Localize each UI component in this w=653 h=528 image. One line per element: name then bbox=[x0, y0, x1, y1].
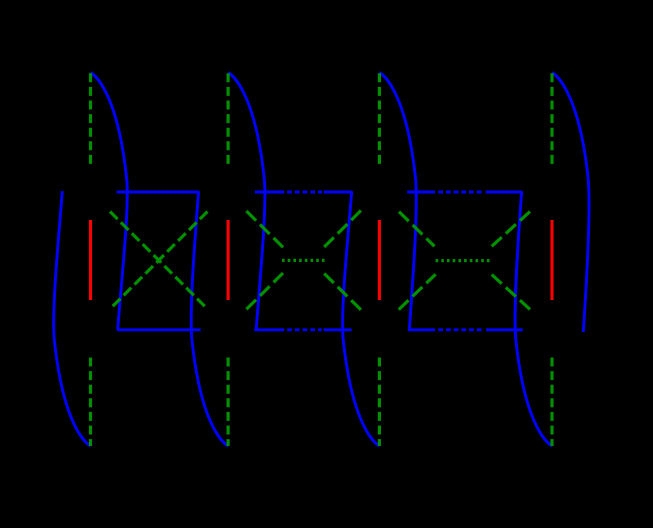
box 3 bottom line right solid bbox=[486, 328, 523, 331]
box 2 green diagonal upper-left bbox=[246, 211, 283, 247]
wire bottom arc 4 bbox=[515, 191, 552, 446]
box 2 bottom line dotted bbox=[287, 328, 322, 331]
box 3 top line left solid bbox=[407, 191, 435, 194]
box 1 green X diagonal A bbox=[110, 212, 208, 310]
box 3 bottom line dotted bbox=[438, 328, 484, 331]
wire top arc 1 bbox=[91, 73, 128, 330]
wire top arc 3 bbox=[379, 73, 416, 330]
red coupling 4 bbox=[550, 220, 553, 300]
box 1 bottom line bbox=[117, 328, 200, 331]
box 2 top line left solid bbox=[255, 191, 284, 194]
box 2 green diagonal upper-right bbox=[324, 211, 361, 248]
green dashed coupling bottom 1 bbox=[89, 358, 92, 447]
box 3 top line right solid bbox=[486, 191, 522, 194]
box 3 green dotted middle bbox=[436, 259, 491, 262]
green dashed coupling top 2 bbox=[227, 73, 230, 164]
green dashed coupling top 1 bbox=[89, 73, 92, 164]
box 3 green diagonal upper-right bbox=[491, 212, 530, 248]
box 2 bottom line left solid bbox=[254, 328, 284, 331]
box 3 top line dotted bbox=[438, 191, 483, 194]
wire bottom arc 2 bbox=[191, 191, 228, 446]
green dashed coupling bottom 2 bbox=[227, 358, 230, 447]
green dashed coupling bottom 4 bbox=[550, 358, 553, 447]
box 2 green diagonal lower-right bbox=[324, 274, 361, 310]
box 2 green dotted middle bbox=[282, 259, 326, 262]
green dashed coupling top 4 bbox=[550, 73, 553, 164]
box 3 green diagonal lower-right bbox=[491, 274, 530, 310]
wire bottom arc 3 bbox=[343, 191, 380, 446]
wire bottom arc 1 bbox=[54, 191, 91, 446]
box 3 green diagonal lower-left bbox=[399, 274, 436, 309]
green dashed coupling bottom 3 bbox=[378, 358, 381, 447]
box 1 top line bbox=[117, 191, 199, 194]
red coupling 2 bbox=[227, 220, 230, 300]
box 3 bottom line left solid bbox=[408, 328, 435, 331]
box 3 green diagonal upper-left bbox=[399, 212, 435, 247]
box 2 top line dotted bbox=[287, 191, 322, 194]
red coupling 1 bbox=[89, 220, 92, 300]
green dashed coupling top 3 bbox=[378, 73, 381, 164]
red coupling 3 bbox=[378, 220, 381, 300]
box 1 green X diagonal B bbox=[110, 212, 208, 310]
wire top arc 4 bbox=[552, 73, 589, 333]
box 2 bottom line right solid bbox=[324, 328, 352, 331]
wire top arc 2 bbox=[228, 73, 265, 330]
box 2 top line right solid bbox=[324, 191, 352, 194]
box 2 green diagonal lower-left bbox=[246, 273, 283, 309]
